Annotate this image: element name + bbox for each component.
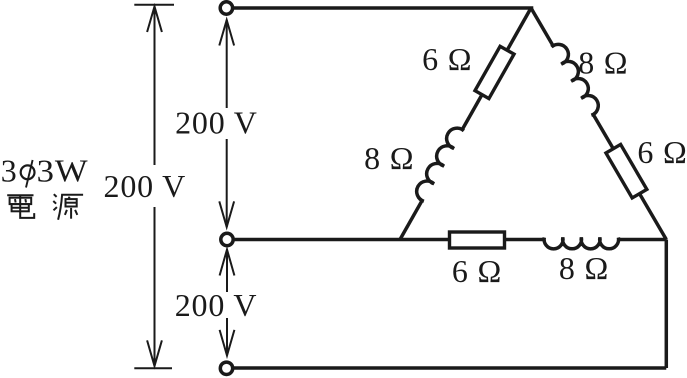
- wire top phase (terminal U to delta apex): [226, 6, 533, 10]
- value label 200 V (lower): [175, 287, 258, 323]
- resistor 6 ohm left leg: [475, 46, 514, 98]
- resistor 6 ohm bottom leg: [450, 232, 505, 248]
- svg-text:6 Ω: 6 Ω: [637, 134, 687, 170]
- kanji DEN (electric) of source label: [7, 195, 34, 218]
- wire middle phase (terminal V to right delta vertex): [227, 238, 666, 242]
- wire delta left leg lower segment: [400, 200, 422, 239]
- svg-text:3W: 3W: [37, 152, 89, 188]
- svg-text:8 Ω: 8 Ω: [578, 45, 628, 81]
- value label 200 V (overall): [104, 168, 187, 204]
- value label 8 ohm (left leg inductor): [364, 140, 414, 176]
- wire right vertical (bottom-right corner to right delta vertex): [665, 240, 669, 369]
- inductor 8 ohm right leg: [551, 41, 602, 116]
- wire delta right leg lower segment: [593, 114, 666, 239]
- svg-text:3: 3: [1, 152, 18, 188]
- dimension line 200V overall (left, with end bars): [134, 5, 174, 369]
- svg-text:8 Ω: 8 Ω: [559, 250, 609, 286]
- value label 8 ohm (bottom inductor): [559, 250, 609, 286]
- inductor 8 ohm bottom leg: [544, 238, 618, 249]
- wire delta right leg upper segment: [531, 8, 553, 46]
- svg-text:200 V: 200 V: [175, 287, 258, 323]
- wire delta left leg upper segment: [462, 8, 531, 130]
- svg-text:200 V: 200 V: [175, 105, 258, 141]
- svg-text:200 V: 200 V: [104, 168, 187, 204]
- dimension arrow 200V upper (terminal U to V): [219, 20, 234, 227]
- terminal V (middle): [221, 233, 233, 245]
- svg-text:6 Ω: 6 Ω: [452, 253, 502, 289]
- dimension arrow 200V lower (terminal V to W): [220, 250, 235, 356]
- value label 6 ohm (bottom resistor): [452, 253, 502, 289]
- resistor 6 ohm right leg: [606, 144, 647, 197]
- source label 3-phase 3-wire: [1, 152, 89, 188]
- value label 200 V (upper): [175, 105, 258, 141]
- kanji GEN (source) of source label: [53, 194, 83, 220]
- greek phi symbol of source label: [21, 160, 35, 188]
- value label 6 ohm (left leg resistor): [422, 41, 472, 77]
- svg-text:6 Ω: 6 Ω: [422, 41, 472, 77]
- inductor 8 ohm left leg: [413, 124, 464, 201]
- value label 8 ohm (right leg inductor): [578, 45, 628, 81]
- svg-text:8 Ω: 8 Ω: [364, 140, 414, 176]
- terminal U (top): [220, 2, 232, 14]
- value label 6 ohm (right leg resistor): [637, 134, 687, 170]
- wire bottom phase (terminal W to bottom-right corner): [227, 366, 667, 370]
- terminal W (bottom): [220, 362, 232, 374]
